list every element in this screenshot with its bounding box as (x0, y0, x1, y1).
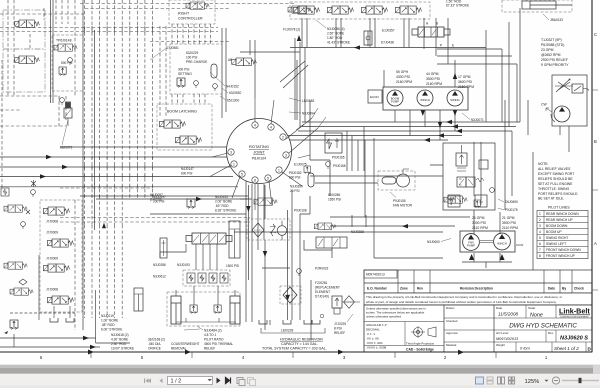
svg-text:L8J0185: L8J0185 (302, 99, 314, 103)
check manifold (183, 270, 230, 286)
boom latching dashed box (157, 104, 212, 150)
solenoid valve stack J7J0008 c (44, 264, 70, 272)
svg-text:63J0530: 63J0530 (229, 91, 241, 95)
pump up arrows (469, 254, 505, 260)
svg-text:2110 RPM: 2110 RPM (502, 226, 518, 230)
winch pump (417, 90, 433, 106)
svg-text:23 GPM: 23 GPM (541, 48, 554, 52)
swing valve assembly (412, 27, 450, 37)
rear winch pump circle (494, 233, 511, 250)
left bottom valve cluster x0 (4, 205, 27, 212)
pump rect lower (460, 231, 515, 252)
cylinder N3J0219 (134, 288, 143, 311)
motor box (316, 237, 347, 248)
horizontal dashed pilot runs top (0, 0, 296, 222)
svg-text:ECON: ECON (370, 95, 379, 99)
winch cylinder manifold dashed box (167, 292, 240, 326)
svg-text:ANGULAR ± 1°: ANGULAR ± 1° (366, 323, 388, 327)
svg-text:N4J0147: N4J0147 (181, 167, 194, 171)
svg-text:3: 3 (539, 224, 541, 228)
svg-text:CONSTRUCTION EQUIPMENT: CONSTRUCTION EQUIPMENT (560, 317, 589, 319)
drawing right border (591, 0, 593, 352)
svg-text:1: 1 (233, 162, 235, 166)
solenoid valve 68J0373 (64, 102, 72, 118)
vertical wires center (222, 28, 310, 322)
svg-text:SETTING: SETTING (178, 72, 192, 76)
svg-text:By: By (562, 287, 566, 291)
svg-text:L8J0228: L8J0228 (281, 329, 293, 333)
svg-text:N3J0286: N3J0286 (153, 263, 166, 267)
pump block rect (383, 87, 468, 110)
legal text (364, 293, 592, 305)
long vertical wires right (486, 8, 569, 288)
valve row drop wires (302, 18, 409, 48)
svg-text:Date: Date (496, 306, 502, 310)
svg-text:P9J0165: P9J0165 (332, 156, 345, 160)
svg-text:REAR WINCH UP: REAR WINCH UP (546, 218, 574, 222)
svg-text:1.00" BORE: 1.00" BORE (101, 319, 118, 323)
dcv inside (457, 177, 484, 187)
relief inside (456, 153, 467, 166)
svg-text:N3J0618 (2): N3J0618 (2) (111, 333, 129, 337)
svg-text:2160 RPM: 2160 RPM (426, 82, 442, 86)
svg-text:SWING LEFT: SWING LEFT (546, 242, 566, 246)
svg-text:B: B (594, 139, 597, 144)
svg-text:E: E (452, 44, 454, 48)
swing pump (447, 90, 463, 106)
svg-text:REAR WINCH DOWN: REAR WINCH DOWN (546, 212, 579, 216)
dashed box 63J0229 group (170, 44, 222, 94)
valve TP6J0148 (54, 44, 77, 51)
title block (364, 305, 592, 352)
svg-text:PILOT LINES: PILOT LINES (548, 206, 570, 210)
svg-text:N3J0071: N3J0071 (471, 118, 484, 122)
valve N4J0152 (232, 58, 257, 66)
svg-text:2.30" ROD: 2.30" ROD (111, 342, 127, 346)
svg-text:WINCH: WINCH (420, 98, 429, 102)
svg-text:4: 4 (270, 125, 272, 129)
svg-text:5: 5 (267, 176, 269, 180)
svg-text:HYDRAULIC RESERVOIR: HYDRAULIC RESERVOIR (280, 338, 323, 342)
toolbar: last page button (226, 378, 231, 384)
svg-text:.040 DIA.: .040 DIA. (148, 342, 161, 346)
svg-text:1: 1 (539, 212, 541, 216)
stepped feed lines right (424, 18, 517, 122)
solenoid valve stack J7J0008 b (48, 239, 74, 247)
gauge inside (490, 188, 495, 193)
dashed box TP6J0148 (52, 35, 83, 91)
svg-text:Rev: Rev (548, 331, 554, 335)
solid vertical line pair left (51, 0, 54, 103)
svg-text:JOINT: JOINT (253, 150, 265, 155)
zone tick marks bottom (91, 352, 496, 358)
svg-text:J7J0225: J7J0225 (334, 322, 346, 326)
svg-text:whole or part, of design and d: whole or part, of design and details con… (366, 300, 557, 304)
right bus arrowheads (354, 45, 462, 142)
svg-text:ELEMENT: ELEMENT (315, 290, 330, 294)
svg-text:3: 3 (230, 150, 232, 154)
holding valve right (214, 305, 221, 314)
svg-text:8 PSI: 8 PSI (334, 327, 342, 331)
lower center wires (234, 160, 443, 325)
svg-text:500 PSI: 500 PSI (61, 61, 72, 65)
toolbar background (0, 374, 600, 388)
acc to fan box wire (315, 182, 378, 184)
svg-text:N3J0288: N3J0288 (351, 230, 364, 234)
svg-text:N3J0399: N3J0399 (290, 185, 303, 189)
toolbar: single page layout icon (active) (476, 377, 484, 384)
svg-text:4.8 TO 1: 4.8 TO 1 (204, 333, 217, 337)
svg-text:Drawn: Drawn (446, 306, 455, 310)
svg-text:2: 2 (539, 218, 541, 222)
valve row V3 (362, 6, 388, 14)
fan motor circle2 (277, 226, 287, 236)
boom pump (387, 90, 403, 106)
svg-text:N4J0152: N4J0152 (226, 85, 239, 89)
gauge left stack (21, 222, 26, 229)
svg-text:AB: AB (228, 58, 232, 62)
svg-text:1 / 2: 1 / 2 (171, 379, 182, 385)
accumulator 63J0229 (211, 64, 217, 78)
right stack valve 257 (254, 198, 277, 205)
svg-text:J7J0008: J7J0008 (46, 220, 58, 224)
svg-text:CW: CW (541, 103, 547, 107)
svg-text:4300 PSI: 4300 PSI (396, 75, 410, 79)
valve row V2 (328, 6, 354, 14)
plugged port symbol (31, 180, 36, 187)
svg-text:1: 1 (278, 168, 280, 172)
svg-text:T1J032T (9P): T1J032T (9P) (541, 38, 562, 42)
gauge 300psi (194, 81, 199, 88)
svg-text:D6J0690: D6J0690 (505, 200, 518, 204)
svg-text:FAN MOTOR: FAN MOTOR (393, 204, 413, 208)
svg-text:Link-Belt: Link-Belt (559, 307, 590, 316)
svg-text:9 GPM PRIORITY: 9 GPM PRIORITY (541, 63, 569, 67)
right controller valve cluster (186, 2, 209, 9)
svg-text:J7J0009: J7J0009 (46, 257, 58, 261)
svg-text:Scale: Scale (528, 306, 536, 310)
svg-text:2160 RPM: 2160 RPM (396, 80, 412, 84)
svg-text:.XXX ± .003: .XXX ± .003 (366, 341, 383, 345)
svg-text:.63" ROD: .63" ROD (215, 204, 229, 208)
svg-text:Rev: Rev (417, 287, 423, 291)
svg-text:unless otherwise specified.: unless otherwise specified. (366, 315, 402, 319)
svg-text:SET AT FULL ENGINE: SET AT FULL ENGINE (538, 182, 573, 186)
svg-text:4500 PSI THERMAL: 4500 PSI THERMAL (204, 342, 233, 346)
svg-text:DWG HYD SCHEMATIC: DWG HYD SCHEMATIC (509, 323, 577, 330)
cylinder right (230, 296, 240, 324)
valve P9J0165 (325, 133, 342, 153)
lower right wires (300, 142, 512, 268)
svg-text:A: A (594, 241, 597, 246)
svg-text:PRE-CHARGE: PRE-CHARGE (186, 60, 207, 64)
svg-text:M097402013: M097402013 (496, 337, 519, 341)
third angle projection symbol (414, 328, 423, 337)
svg-text:Material: Material (446, 343, 457, 347)
svg-text:N3J0394: N3J0394 (302, 112, 315, 116)
svg-text:P9J0168: P9J0168 (333, 164, 346, 168)
tolerance note (366, 307, 426, 319)
svg-text:E.O. Number: E.O. Number (367, 287, 388, 291)
tank symbols under stack (50, 318, 58, 322)
cylinder N4J0533 (229, 221, 240, 258)
svg-text:3500 PSI: 3500 PSI (426, 77, 440, 81)
svg-text:1650 PSI: 1650 PSI (328, 198, 341, 202)
svg-text:3500 PSI: 3500 PSI (502, 221, 516, 225)
zone border arrows (88, 350, 464, 355)
svg-text:N4J0533: N4J0533 (215, 195, 228, 199)
svg-text:N3J0484 (2): N3J0484 (2) (204, 329, 222, 333)
svg-text:N3J0600: N3J0600 (427, 240, 440, 244)
toolbar: first page button (disabled) (144, 378, 151, 383)
svg-text:JBA0133: JBA0133 (550, 18, 563, 22)
econ box (368, 90, 382, 103)
svg-text:63J0229: 63J0229 (186, 51, 198, 55)
svg-text:2110 RPM: 2110 RPM (472, 226, 488, 230)
svg-text:P6J0088 (STD): P6J0088 (STD) (541, 43, 564, 47)
svg-text:4: 4 (539, 230, 541, 234)
relief P8J0182 (304, 166, 310, 174)
manifold bottom line (176, 318, 236, 322)
accumulator mid (308, 173, 314, 187)
svg-text:44 GPM: 44 GPM (426, 72, 439, 76)
svg-text:RELIEF: RELIEF (334, 331, 345, 335)
note text block (538, 162, 578, 201)
extra horizontal runs left mid (0, 147, 248, 196)
svg-text:41.43" STROKE: 41.43" STROKE (327, 41, 350, 45)
svg-text:P8J0104: P8J0104 (252, 157, 266, 161)
svg-text:N3J0620 S: N3J0620 S (560, 336, 588, 342)
svg-text:F1J0078 (2): F1J0078 (2) (283, 28, 300, 32)
toolbar: next view icon (disabled) (248, 378, 254, 384)
drawing bottom border (0, 351, 592, 353)
valve TL1 (15, 20, 40, 28)
toolbar: two-up continuous icon (509, 377, 515, 384)
svg-text:P2R0023: P2R0023 (315, 267, 329, 271)
svg-text:1500 PSI: 1500 PSI (226, 264, 239, 268)
svg-text:BE SET AT IDLE.: BE SET AT IDLE. (538, 197, 564, 201)
toolbar: continuous layout icon (487, 377, 493, 384)
toolbar: zoom out button (552, 377, 559, 384)
pump spec text 55gph (396, 70, 474, 89)
pump shaft line (480, 241, 493, 243)
rotating joint stub wires (210, 98, 326, 210)
toolbar: next page button (217, 378, 221, 384)
gauge 33 192 (31, 190, 36, 197)
svg-text:3: 3 (285, 153, 287, 157)
valve row V1 (294, 6, 320, 14)
svg-text:1.80" ROD: 1.80" ROD (327, 36, 343, 40)
svg-text:2: 2 (282, 135, 284, 139)
svg-text:Approval: Approval (446, 331, 458, 335)
svg-text:8: 8 (539, 254, 541, 258)
svg-text:DECIMAL: DECIMAL (366, 328, 380, 332)
svg-text:.XX ± .06: .XX ± .06 (366, 337, 379, 341)
reservoir bracket (261, 328, 325, 333)
relief N3J0497 (187, 199, 195, 209)
svg-text:P9J0105: P9J0105 (393, 199, 406, 203)
svg-text:2.50" BORE: 2.50" BORE (327, 32, 344, 36)
svg-text:RIGHT: RIGHT (178, 12, 190, 16)
wires under pumps (384, 60, 455, 140)
svg-text:65J1300: 65J1300 (227, 99, 239, 103)
svg-text:Revision Description: Revision Description (460, 287, 493, 291)
boom cylinder top right (522, 1, 572, 9)
svg-text:BOOM DOWN: BOOM DOWN (546, 224, 568, 228)
svg-text:D7J0438: D7J0438 (381, 41, 394, 45)
relief valve bottom-left (10, 320, 18, 330)
svg-text:CAPACITY = 144 GAL.: CAPACITY = 144 GAL. (281, 342, 318, 346)
solid vertical line pair mid (83, 0, 95, 330)
svg-text:Third Angle Projection: Third Angle Projection (406, 342, 435, 346)
zone digits bottom (40, 355, 548, 360)
priority solenoid (572, 84, 589, 93)
center-bottom arrows (246, 206, 408, 301)
svg-text:Zone: Zone (400, 287, 408, 291)
svg-text:TP6J0148: TP6J0148 (56, 39, 72, 43)
filter diamond right stack (285, 228, 287, 230)
svg-text:CCW: CCW (516, 243, 523, 247)
toolbar: page number combo box (168, 377, 213, 385)
svg-text:P9J0108: P9J0108 (294, 209, 307, 213)
fan feed verticals (365, 138, 374, 217)
fan valve (314, 223, 336, 230)
svg-text:P: P (440, 44, 442, 48)
vertical component N3J0288 left (160, 238, 167, 258)
svg-text:N3J0612: N3J0612 (153, 275, 166, 279)
svg-text:0 lbm: 0 lbm (520, 346, 530, 351)
cylinder left (171, 296, 181, 324)
solenoid valve stack J7J0008 d (48, 296, 74, 304)
boom latch valve 1 (160, 120, 186, 128)
valve row V4 (396, 6, 422, 14)
svg-text:COUNTERWEIGHT: COUNTERWEIGHT (171, 342, 200, 346)
svg-text:2.00" BORE: 2.00" BORE (215, 200, 232, 204)
svg-text:ORIFICE: ORIFICE (148, 347, 161, 351)
horizontal scrollbar track (0, 365, 600, 375)
svg-text:Date: Date (548, 287, 555, 291)
svg-text:11/5/2008: 11/5/2008 (498, 312, 519, 317)
return filter diamond (283, 287, 297, 303)
svg-text:TOTAL SYSTEM CAPACITY = 203 GA: TOTAL SYSTEM CAPACITY = 203 GAL. (262, 347, 327, 351)
svg-text:CONTROLLER: CONTROLLER (178, 17, 203, 21)
svg-text:55 GPH: 55 GPH (396, 70, 409, 74)
svg-text:.X ± .1: .X ± .1 (366, 332, 375, 336)
bus arrowheads center-left (40, 35, 301, 228)
svg-text:M097402013: M097402013 (366, 273, 385, 277)
svg-text:SWING: SWING (450, 98, 459, 102)
svg-text:GO Level: GO Level (496, 331, 509, 335)
fan blades symbol (270, 224, 276, 236)
svg-text:EXCEPT SWING PORT: EXCEPT SWING PORT (538, 172, 574, 176)
svg-text:5: 5 (539, 236, 541, 240)
bottom-left connection wires (0, 255, 130, 347)
svg-text:N3J0497: N3J0497 (153, 195, 166, 199)
left area dashed verticals (2, 0, 75, 330)
priority valve box (552, 75, 587, 126)
svg-text:J7J0009: J7J0009 (46, 231, 58, 235)
svg-text:C: C (594, 32, 597, 37)
svg-text:8.26" STROKE: 8.26" STROKE (215, 209, 236, 213)
svg-text:@2652 RPM: @2652 RPM (541, 53, 561, 57)
svg-text:Sheet 1 of 2: Sheet 1 of 2 (554, 346, 579, 351)
svg-text:F2J0281: F2J0281 (315, 281, 328, 285)
small diamond check (19, 279, 27, 285)
revision table (364, 270, 592, 293)
right controller dashed box (169, 0, 215, 24)
svg-text:NOTE:: NOTE: (538, 162, 548, 166)
svg-text:D7J0581: D7J0581 (166, 46, 179, 50)
gauge left (60, 98, 65, 105)
fan filter diamond (252, 223, 264, 237)
svg-text:BOOM UP: BOOM UP (546, 230, 562, 234)
gauge TP6J0148 (68, 58, 73, 65)
dash-dot enclosure top-left (3, 10, 45, 92)
svg-text:E1J0357: E1J0357 (382, 29, 395, 33)
svg-text:19.00" STROKE: 19.00" STROKE (111, 347, 134, 351)
svg-text:PILOT RATIO: PILOT RATIO (204, 338, 224, 342)
svg-text:6: 6 (539, 242, 541, 246)
svg-text:FRONT WINCH UP: FRONT WINCH UP (546, 254, 576, 258)
pump drop arrows (421, 73, 458, 128)
wire arrows bottom-left (83, 336, 96, 349)
svg-text:200 PSI: 200 PSI (153, 200, 164, 204)
stack enclosure dashed (40, 200, 82, 312)
svg-text:D7J0149): D7J0149) (315, 295, 329, 299)
svg-text:.38" ROD: .38" ROD (101, 323, 115, 327)
svg-text:7: 7 (539, 248, 541, 252)
main boom valve hatched (186, 233, 232, 244)
svg-text:RELIEF: RELIEF (204, 347, 215, 351)
bypass filter assembly (332, 296, 342, 314)
main horizontal buses center-left (0, 157, 248, 214)
component F1J0078 (288, 6, 311, 13)
label T1J032T block (541, 38, 569, 67)
svg-text:FRONT WINCH DOWN: FRONT WINCH DOWN (546, 248, 581, 252)
svg-text:SWING RIGHT: SWING RIGHT (546, 236, 568, 240)
svg-text:Weight: Weight (496, 343, 505, 347)
svg-text:P8J0182: P8J0182 (289, 171, 302, 175)
gauge under accumulator (213, 84, 218, 91)
svg-text:300 PSI: 300 PSI (178, 68, 189, 72)
relief valve 300psi (177, 78, 185, 88)
svg-text:4: 4 (254, 123, 256, 127)
zone letters right (594, 32, 597, 246)
fan pump circle (463, 234, 480, 251)
horizontal scrollbar thumb (0, 365, 593, 368)
reservoir gauge (320, 314, 324, 318)
svg-text:PUMP: PUMP (467, 244, 475, 248)
holding valve left (190, 305, 197, 314)
pilot line bundle vertical dashed (85, 0, 211, 318)
gauge P2R0023 (297, 269, 302, 276)
svg-text:8: 8 (254, 178, 256, 182)
pilot lines table (537, 211, 588, 259)
svg-text:ALL RELIEF VALVES: ALL RELIEF VALVES (538, 167, 571, 171)
check E1J0357 (364, 31, 372, 45)
rotating joint ports (228, 122, 289, 183)
drawn row (446, 306, 554, 347)
svg-text:20 PSI: 20 PSI (290, 189, 300, 193)
svg-text:100 PSI: 100 PSI (186, 56, 197, 60)
small check top (1, 188, 9, 196)
svg-text:RELIEFS SHOULD BE: RELIEFS SHOULD BE (538, 177, 573, 181)
svg-text:2900 PSI RELIEF: 2900 PSI RELIEF (541, 58, 568, 62)
svg-text:4.30" BORE: 4.30" BORE (111, 338, 128, 342)
swing brake box (443, 143, 495, 210)
svg-text:REMOVAL: REMOVAL (171, 347, 187, 351)
toolbar: prev page button (disabled) (160, 378, 163, 383)
